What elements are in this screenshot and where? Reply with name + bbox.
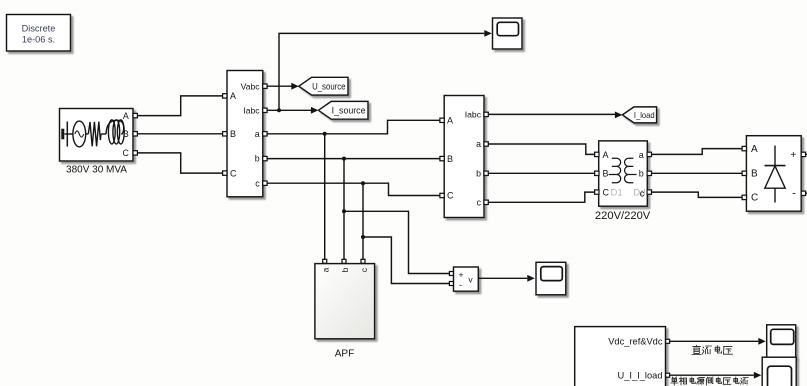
wire Iabc to I_source tag [267,107,318,114]
transformer output port c [647,190,651,194]
control subsystem block with Vdc_ref&Vdc and U_I_I_load outputs [575,327,666,386]
svg-text:Discrete: Discrete [22,24,56,34]
node junction phase b tap [342,209,346,213]
svg-text:b: b [340,267,350,272]
wire voltage measurement to Scope2 [479,275,535,282]
wire measurement1 b to measurement2 B [267,158,440,160]
svg-text:Iabc: Iabc [465,110,482,120]
svg-text:B: B [751,169,758,180]
wire source B to measurement1 B [137,133,222,135]
measurement2 input port C [440,193,444,197]
source output port A [133,113,137,117]
wire transformer b to rectifier B [652,172,745,174]
voltage measurement block V [454,267,479,291]
wire transformer c to rectifier C [652,192,745,197]
svg-text:1e-06 s.: 1e-06 s. [22,35,55,45]
svg-text:c: c [640,188,645,198]
svg-text:Vdc_ref&Vdc: Vdc_ref&Vdc [608,336,663,346]
wire phase a down to APF port a [324,134,326,259]
goto tag I_load [622,107,656,123]
measurement2 output port b [484,171,488,175]
svg-text:C: C [122,148,129,158]
control block output port 2 [666,373,670,377]
svg-text:b: b [639,169,644,179]
svg-text:A: A [751,144,758,155]
transformer input port C [595,190,599,194]
wire U_I_I_load to Scope4 [670,372,762,379]
control block output port 1 [666,339,670,343]
wire measurement2 Iabc to I_load tag [488,112,622,119]
measurement1 output port b [263,156,267,160]
transformer output port b [647,171,651,175]
voltage measurement input + [449,272,453,276]
node junction phase a [323,132,327,136]
scope block Scope4 [762,357,796,386]
APF input port c [361,259,365,263]
svg-text:A: A [447,116,453,126]
svg-text:Vabc: Vabc [241,81,261,91]
goto tag U_source [299,77,348,95]
rectifier output port + [801,152,805,156]
svg-text:U_source: U_source [312,81,345,91]
svg-text:A: A [123,111,129,121]
wire rectifier - stub [806,192,807,194]
svg-text:C: C [603,188,610,198]
svg-text:c: c [255,178,260,188]
universal bridge rectifier block [746,136,801,212]
wire source A to measurement1 A [137,96,222,116]
svg-text:+: + [790,150,796,161]
svg-text:a: a [320,267,330,272]
measurement1 input port A [223,94,227,98]
svg-text:APF: APF [335,349,354,360]
wire rectifier + stub [806,153,807,155]
svg-text:380V 30 MVA: 380V 30 MVA [66,164,127,175]
wire phase b tap to voltage measurement + [344,211,451,273]
svg-text:U_I_I_load: U_I_I_load [618,370,663,380]
wire phase c tap to voltage measurement - [363,237,451,284]
scope block Scope2 [536,262,566,295]
measurement2 output port a [484,142,488,146]
APF input port a [323,259,327,263]
svg-text:C: C [751,193,758,204]
wire phase c down to APF port c [362,183,364,259]
wire label 单相电源侧电压电流 (single-phase source side V and I) [671,377,749,385]
svg-text:B: B [603,169,609,179]
powergui block "Discrete 1e-06 s." [7,15,71,52]
measurement1 output port Iabc [263,108,267,112]
three-phase V-I measurement block 1 [227,71,263,197]
wire measurement1 c to measurement2 C [267,183,440,195]
svg-text:+: + [459,270,464,280]
node junction phase b [342,157,346,161]
APF input port b [342,259,346,263]
rectifier input port B [742,171,746,175]
svg-text:a: a [255,129,260,139]
measurement2 output port Iabc [484,112,488,116]
wire phase b down to APF port b [343,159,345,259]
rectifier input port A [742,146,746,150]
svg-text:a: a [639,150,644,160]
measurement1 output port a [263,132,267,136]
svg-text:I_source: I_source [332,106,366,116]
wire label 直流电压 (DC voltage) [692,345,732,354]
wire measurement2 c to transformer C [488,192,594,202]
svg-text:Iabc: Iabc [243,105,260,115]
label APF [335,349,354,360]
svg-text:b: b [255,154,260,164]
source output port C [133,151,137,155]
svg-text:-: - [792,187,796,199]
wire transformer a to rectifier A [652,149,745,155]
svg-text:A: A [603,150,609,160]
three-phase transformer block 220V/220V [599,141,648,206]
wire Iabc branch up to Scope1 [279,30,492,110]
measurement1 input port C [223,171,227,175]
svg-text:-: - [459,280,462,291]
svg-text:D1: D1 [611,188,623,199]
rectifier output port - [801,191,805,195]
svg-text:B: B [230,129,236,139]
transformer input port B [595,171,599,175]
measurement1 input port B [223,132,227,136]
svg-text:B: B [447,154,453,164]
svg-text:c: c [477,197,482,207]
wire measurement2 b to transformer B [488,172,594,174]
wire measurement1 a to measurement2 A [267,120,440,134]
svg-text:A: A [230,91,236,101]
voltage measurement input - [449,282,453,286]
three-phase source block 380V 30 MVA [60,109,134,162]
wire Vabc to U_source tag [267,83,299,90]
label 380V 30 MVA [66,164,127,175]
APF subsystem block [315,264,375,339]
measurement2 input port A [440,118,444,122]
svg-text:C: C [447,191,454,201]
svg-text:I_load: I_load [634,110,655,120]
wire measurement2 a to transformer A [488,144,594,154]
wire source C to measurement1 C [137,153,222,173]
goto tag I_source [318,101,368,119]
svg-text:C: C [230,168,237,178]
scope block Scope1 [493,18,523,49]
transformer input port A [595,152,599,156]
measurement2 output port c [484,200,488,204]
source output port B [133,132,137,136]
svg-text:220V/220V: 220V/220V [595,210,651,222]
transformer output port a [647,152,651,156]
node junction on Iabc wire [277,108,281,112]
svg-text:B: B [123,129,129,139]
label 220V/220V [595,210,651,222]
svg-text:b: b [476,168,481,178]
svg-text:a: a [476,139,481,149]
node junction phase c tap [361,235,365,239]
measurement1 output port Vabc [263,84,267,88]
node junction phase c [361,181,365,185]
scope block Scope3 [767,325,796,358]
measurement1 output port c [263,181,267,185]
measurement2 input port B [440,156,444,160]
wire Vdc_ref&Vdc to Scope3 [670,338,766,345]
three-phase V-I measurement block 2 [444,96,484,218]
rectifier input port C [742,195,746,199]
